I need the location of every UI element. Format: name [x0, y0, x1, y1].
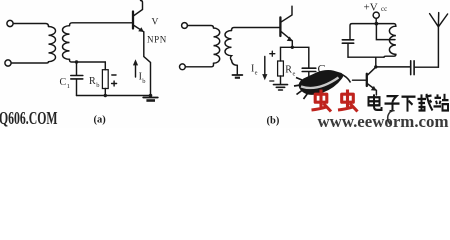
- watermark character zi: [385, 96, 400, 111]
- current arrow Ib (a): [135, 64, 137, 78]
- svg-text:www.eeworm.com: www.eeworm.com: [318, 113, 449, 128]
- current arrow Ie (b): [264, 57, 266, 77]
- polarity minus Ie (b): [270, 80, 274, 82]
- top rail (c): [350, 24, 396, 40]
- resistor Re body (b): [278, 61, 284, 76]
- transistor V emitter arrowhead (a): [138, 27, 144, 32]
- inductor L winding (c): [389, 26, 396, 54]
- transistor collector diagonal (c): [368, 67, 376, 75]
- watermark character zai: [418, 94, 433, 111]
- wire collector to antenna capacitor (c): [376, 66, 411, 68]
- junction dot Vcc on rail: [375, 22, 379, 26]
- svg-text:(a): (a): [94, 115, 107, 126]
- inductor bottom leg to rail (c): [384, 54, 396, 57]
- supply terminal +Vcc circle: [373, 12, 379, 18]
- bug mascot antenna: [340, 74, 351, 83]
- wire secondary bottom rail (a): [70, 59, 106, 62]
- capacitor C1 lead bottom: [76, 79, 78, 95]
- svg-text:C: C: [60, 77, 67, 88]
- wire bottom-left to terminal (a): [11, 62, 48, 63]
- ground bar (a): [143, 97, 158, 99]
- svg-text:b: b: [96, 82, 99, 89]
- svg-text:R: R: [285, 65, 292, 76]
- svg-text:Q606.COM: Q606.COM: [0, 110, 57, 128]
- watermark character chong 2: [338, 90, 358, 112]
- wire bottom-left (b): [185, 63, 213, 67]
- transistor collector (b): [281, 6, 292, 22]
- svg-text:(b): (b): [267, 116, 280, 127]
- resistor Rb lead top: [104, 62, 106, 70]
- junction dot emitter-bottom (a): [149, 94, 153, 98]
- input terminal bottom (a): [5, 60, 11, 66]
- capacitor C plates (b): [302, 68, 316, 71]
- wire secondary bottom to ground (b): [232, 60, 238, 74]
- input terminal bottom (b): [180, 64, 186, 70]
- wire emitter node to Re (b): [281, 47, 293, 61]
- svg-text:NPN: NPN: [147, 35, 167, 45]
- ground bar coil (b): [232, 74, 242, 76]
- supply stub: [375, 18, 377, 23]
- transistor V base bar (a): [132, 12, 134, 29]
- resistor Rb lead bottom: [104, 89, 106, 96]
- lower rail (c): [348, 56, 384, 58]
- transistor V collector (a): [134, 1, 143, 16]
- bug mascot body: [294, 70, 351, 99]
- svg-text:V: V: [152, 18, 159, 28]
- svg-text:e: e: [255, 70, 258, 77]
- wire secondary top to base (b): [232, 28, 280, 31]
- transistor emitter arrowhead (b): [287, 37, 293, 42]
- wire emitter node to capacitor C (b): [292, 47, 309, 68]
- polarity minus Rb (a): [112, 74, 116, 76]
- bug antennae over letter o: [388, 111, 395, 124]
- antenna riser (c): [437, 27, 439, 67]
- transistor emitter arrowhead (c): [371, 86, 377, 91]
- collector riser (c): [375, 57, 377, 67]
- ground block coil (b): [235, 77, 240, 79]
- wire capacitor to antenna (c): [414, 66, 438, 68]
- svg-text:e: e: [293, 71, 296, 78]
- transistor base bar (c): [366, 74, 368, 86]
- ground block (a): [146, 99, 155, 102]
- wire top-left to primary (a): [13, 24, 48, 27]
- bug mascot legs: [294, 78, 308, 100]
- transistor emitter (c): [368, 84, 377, 95]
- resistor Rb body: [102, 70, 108, 89]
- input terminal top (b): [182, 23, 188, 29]
- wire secondary top to base (a): [70, 23, 132, 26]
- watermark character dian: [369, 94, 382, 110]
- transformer T2 primary winding (b): [214, 28, 220, 63]
- input terminal top (a): [7, 20, 13, 26]
- watermark character chong 1: [312, 90, 332, 112]
- junction dot Rb-bottom (a): [104, 94, 107, 97]
- inductor tap wire from Vcc (c): [376, 24, 395, 40]
- capacitor C1 plates: [71, 76, 83, 79]
- svg-text:+V: +V: [364, 2, 378, 14]
- watermark character xia: [402, 97, 416, 112]
- watermark character zhan: [434, 94, 449, 111]
- capacitor C1 lead top: [76, 62, 78, 75]
- antenna fan (c): [430, 13, 448, 27]
- ground bars Re (b): [274, 84, 288, 86]
- transformer T1 secondary winding (a): [63, 26, 70, 60]
- polarity plus Ie (b): [270, 51, 275, 56]
- svg-text:R: R: [89, 76, 96, 87]
- transistor base bar (b): [279, 17, 281, 36]
- svg-text:cc: cc: [381, 5, 387, 13]
- svg-text:1: 1: [67, 83, 70, 90]
- transformer T2 secondary winding (b): [225, 31, 232, 61]
- capacitor C lead bottom (b): [308, 72, 310, 79]
- capacitor lead bottom to rail (c): [347, 43, 349, 57]
- bottom rail (a): [77, 95, 151, 97]
- resistor Re lead bottom (b): [280, 76, 282, 84]
- wire top-left (b): [187, 26, 213, 29]
- junction dot emitter node (b): [291, 46, 294, 49]
- transistor emitter (b): [281, 32, 292, 48]
- transistor V emitter (a): [134, 26, 144, 32]
- polarity plus Rb (a): [112, 81, 117, 86]
- antenna coupling capacitor plates (c): [411, 61, 414, 75]
- junction dot collector node (c): [374, 65, 377, 68]
- capacitor tuning plates (c): [342, 40, 353, 43]
- base wire left (c): [353, 79, 366, 81]
- bug mascot brim highlight: [301, 78, 339, 89]
- node C1 tap junction dot (a): [75, 60, 78, 63]
- wire emitter to ground (a): [144, 32, 151, 96]
- transformer T1 primary winding (a): [49, 27, 56, 62]
- svg-text:b: b: [142, 78, 145, 85]
